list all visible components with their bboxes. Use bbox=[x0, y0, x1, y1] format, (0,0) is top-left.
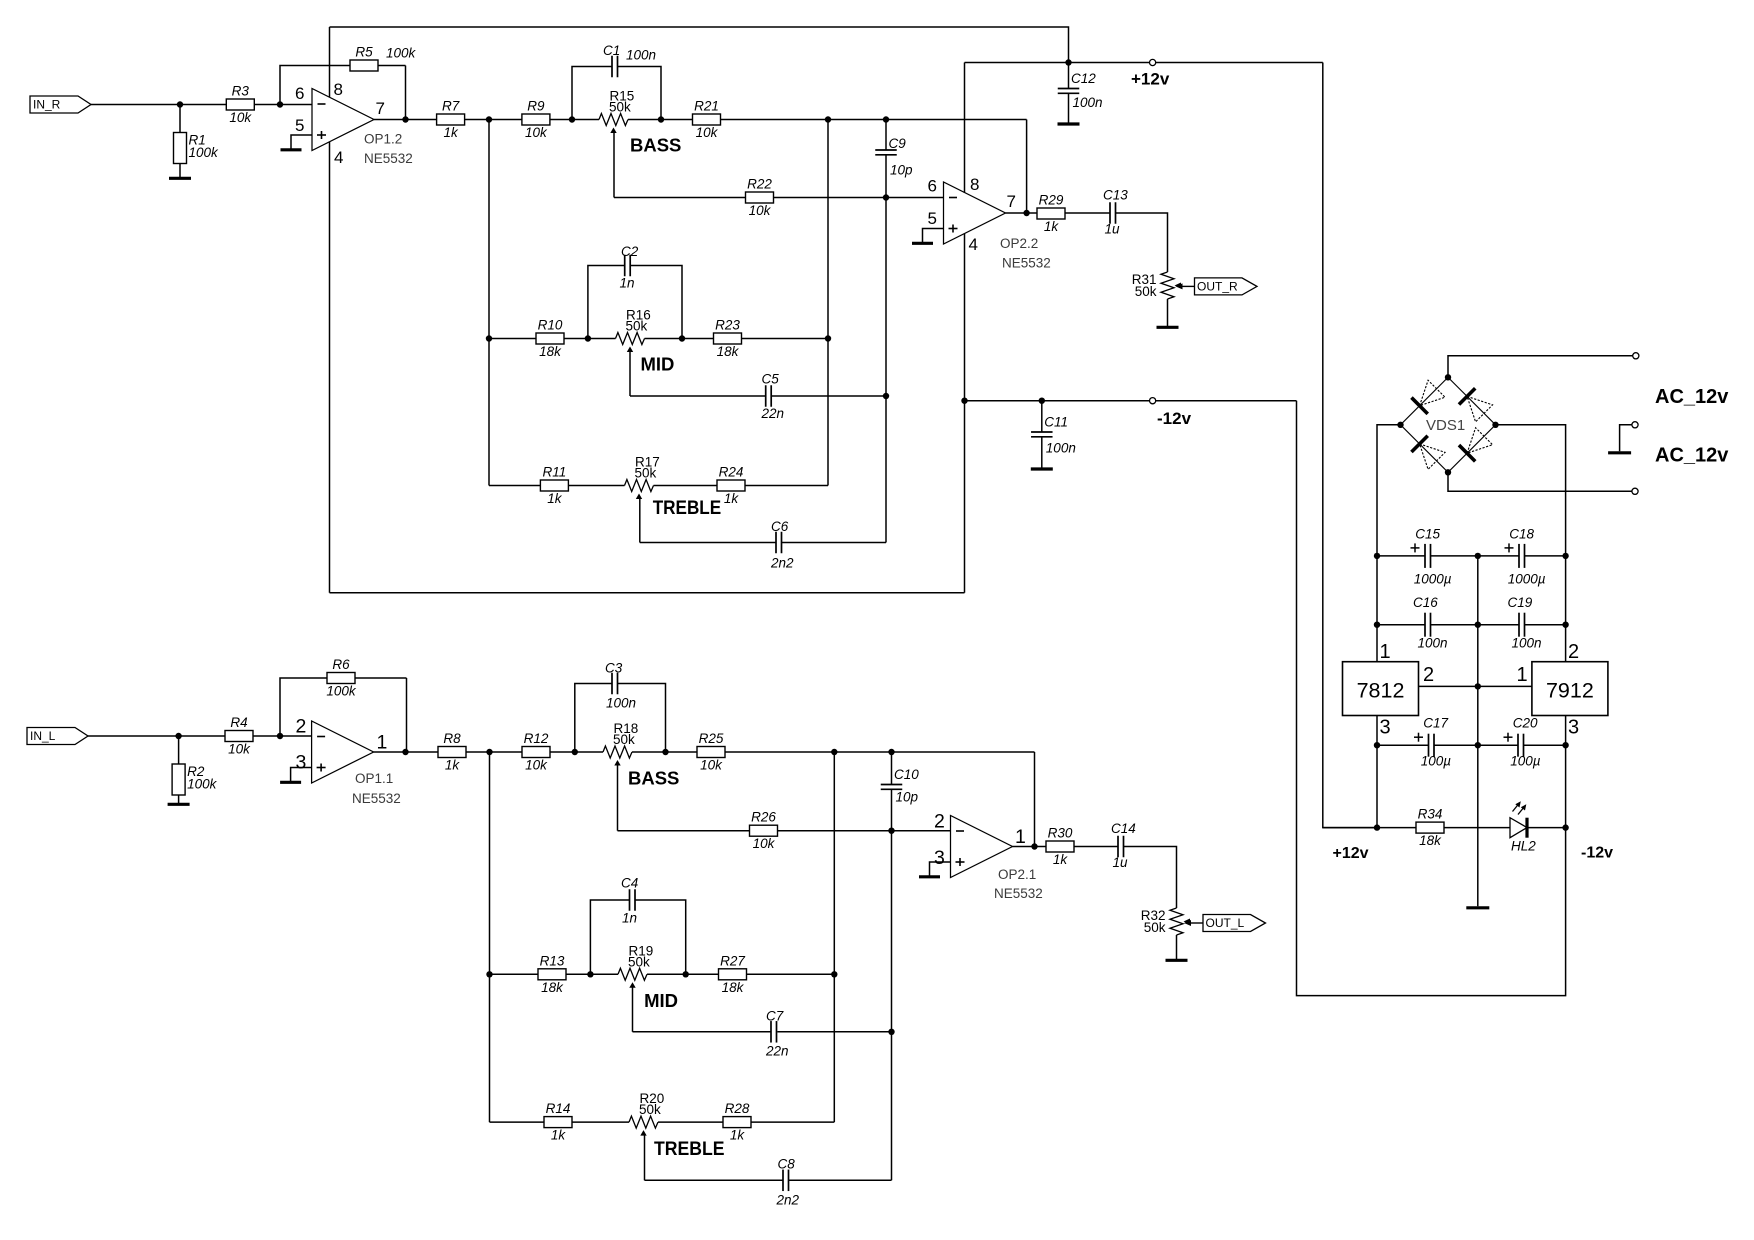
svg-text:C17: C17 bbox=[1423, 716, 1448, 731]
junction input bus top bbox=[486, 116, 492, 122]
wire middle column bbox=[1477, 556, 1479, 906]
svg-text:22n: 22n bbox=[765, 1044, 789, 1059]
capacitor C14 1u bbox=[1111, 821, 1136, 870]
svg-text:NE5532: NE5532 bbox=[352, 791, 401, 806]
wire R1 bottom lead bbox=[179, 164, 181, 178]
junction bass out / cold bus bbox=[825, 116, 831, 122]
capacitor C13 1u bbox=[1103, 188, 1128, 237]
junction C12 +12v bbox=[1065, 59, 1071, 65]
ground PSU middle bbox=[1466, 906, 1489, 909]
wire C8 row left bbox=[645, 1179, 784, 1181]
capacitor C10 10p bbox=[881, 767, 920, 805]
wire C9 upper lead bbox=[885, 120, 887, 151]
svg-text:2: 2 bbox=[1568, 641, 1579, 663]
node B1 bass right bbox=[658, 116, 664, 122]
capacitor C12 100n bbox=[1058, 71, 1103, 110]
resistor R7 1k bbox=[437, 99, 465, 141]
wire bass2 wiper down bbox=[617, 765, 619, 831]
junction bus mid row 2 bbox=[486, 971, 492, 977]
junction -12v output bbox=[1562, 824, 1568, 830]
svg-text:R25: R25 bbox=[699, 731, 724, 746]
wire R2 bottom lead bbox=[178, 795, 180, 803]
resistor R30 1k bbox=[1046, 826, 1074, 868]
wire C3 right bracket bbox=[618, 684, 666, 753]
svg-text:1000µ: 1000µ bbox=[1414, 571, 1452, 586]
svg-text:NE5532: NE5532 bbox=[1002, 256, 1051, 271]
svg-text:10k: 10k bbox=[525, 758, 548, 773]
wire C2 left bracket bbox=[588, 266, 625, 339]
junction C10 top bbox=[888, 749, 894, 755]
node B2 bass right bbox=[662, 749, 668, 755]
wire C10 upper lead bbox=[891, 752, 893, 785]
svg-text:18k: 18k bbox=[539, 344, 562, 359]
svg-text:2: 2 bbox=[1423, 664, 1434, 686]
svg-text:R27: R27 bbox=[720, 953, 745, 968]
ground at OP2.2 plus input bbox=[912, 229, 944, 244]
svg-text:2: 2 bbox=[296, 716, 307, 738]
wire -12v bottom rail bbox=[330, 592, 965, 594]
wire input bus vertical bbox=[488, 120, 490, 486]
ground AC middle bbox=[1608, 451, 1631, 454]
resistor R27 18k bbox=[719, 953, 747, 995]
wire R22 row to OP2.2 minus bbox=[614, 197, 944, 199]
svg-text:R29: R29 bbox=[1039, 193, 1064, 208]
svg-text:R13: R13 bbox=[540, 953, 565, 968]
op-amp OP1.1 NE5532 bbox=[296, 716, 401, 807]
junction OP2.2 output feedback bbox=[1023, 210, 1029, 216]
svg-text:R10: R10 bbox=[538, 318, 563, 333]
wire mid rail between regulators bbox=[1419, 685, 1532, 687]
wire R32 to ground bbox=[1176, 935, 1178, 959]
svg-text:5: 5 bbox=[295, 116, 304, 135]
potentiometer R15 50k BASS bbox=[599, 89, 634, 134]
ground under C11 bbox=[1031, 467, 1053, 470]
svg-text:10k: 10k bbox=[229, 110, 252, 125]
wire bridge left to +column bbox=[1377, 425, 1401, 662]
wire C1 right bracket bbox=[618, 67, 661, 120]
junction input/R2 bbox=[175, 733, 181, 739]
resistor R8 1k bbox=[438, 731, 466, 773]
svg-text:MID: MID bbox=[644, 990, 678, 1011]
svg-text:1: 1 bbox=[1380, 641, 1391, 663]
resistor R29 1k bbox=[1037, 193, 1065, 235]
svg-text:10k: 10k bbox=[696, 125, 719, 140]
connector IN_R bbox=[30, 96, 91, 113]
svg-text:C13: C13 bbox=[1103, 188, 1128, 203]
wire OP1.2 output row bbox=[374, 119, 599, 121]
svg-text:HL2: HL2 bbox=[1511, 839, 1536, 854]
svg-text:5: 5 bbox=[928, 209, 937, 228]
svg-text:10k: 10k bbox=[700, 758, 723, 773]
wire +12v top rail bbox=[330, 27, 1069, 63]
svg-text:TREBLE: TREBLE bbox=[653, 497, 722, 519]
svg-text:R24: R24 bbox=[719, 465, 744, 480]
wire cold bus vertical 2 bbox=[833, 752, 835, 1122]
regulator U2 7912 bbox=[1532, 662, 1608, 716]
capacitor C20 100u bbox=[1504, 716, 1541, 769]
svg-text:18k: 18k bbox=[717, 344, 740, 359]
wire bridge bottom to AC bbox=[1448, 472, 1632, 491]
svg-text:100k: 100k bbox=[189, 145, 220, 160]
svg-text:+12v: +12v bbox=[1333, 845, 1369, 862]
svg-text:1k: 1k bbox=[724, 491, 740, 506]
node mid left bbox=[585, 335, 591, 341]
svg-text:7912: 7912 bbox=[1546, 679, 1594, 703]
junction bridge top bbox=[1445, 374, 1451, 380]
capacitor C15 1000u bbox=[1411, 526, 1452, 586]
svg-text:C10: C10 bbox=[894, 767, 919, 782]
junction C5 row bbox=[883, 393, 889, 399]
junction C11 -12v bbox=[1039, 398, 1045, 404]
wire mid2 row right bbox=[647, 973, 834, 975]
svg-text:C18: C18 bbox=[1509, 526, 1534, 541]
terminal +12v bbox=[1150, 59, 1156, 65]
wire 7812 output down bbox=[1376, 716, 1378, 828]
node A1 bass left bbox=[569, 116, 575, 122]
svg-text:18k: 18k bbox=[1419, 833, 1442, 848]
svg-text:R8: R8 bbox=[443, 731, 461, 746]
svg-text:100k: 100k bbox=[187, 777, 218, 792]
junction mid2 out / cold bus bbox=[831, 971, 837, 977]
terminal AC bottom bbox=[1632, 488, 1638, 494]
junction C17 row mid bbox=[1475, 742, 1481, 748]
resistor R14 1k bbox=[544, 1101, 572, 1143]
wire input bus vertical 2 bbox=[489, 752, 491, 1122]
svg-text:C8: C8 bbox=[778, 1157, 796, 1172]
junction input bus top 2 bbox=[486, 749, 492, 755]
wire treble2 row bbox=[490, 1121, 630, 1123]
svg-text:1: 1 bbox=[1015, 826, 1026, 848]
op-amp OP2.1 NE5532 bbox=[934, 811, 1043, 902]
potentiometer R32 50k bbox=[1141, 908, 1190, 935]
svg-text:R21: R21 bbox=[694, 99, 719, 114]
wire R26 row to OP2.1 minus bbox=[618, 830, 951, 832]
wire C17 row b bbox=[1434, 744, 1518, 746]
svg-text:MID: MID bbox=[641, 354, 675, 375]
svg-text:10k: 10k bbox=[753, 836, 776, 851]
svg-text:4: 4 bbox=[334, 148, 343, 167]
capacitor C16 100n bbox=[1413, 595, 1448, 651]
wire C6 row left bbox=[640, 542, 776, 544]
resistor R1 100k bbox=[174, 133, 220, 164]
svg-text:NE5532: NE5532 bbox=[364, 151, 413, 166]
svg-text:OUT_R: OUT_R bbox=[1197, 279, 1238, 293]
connector OUT_R bbox=[1176, 278, 1258, 295]
svg-text:100n: 100n bbox=[1073, 95, 1103, 110]
terminal AC top bbox=[1633, 353, 1639, 359]
wire C17 row a bbox=[1377, 744, 1429, 746]
wire treble row right bbox=[654, 485, 829, 487]
ground under C12 bbox=[1058, 122, 1080, 125]
junction input/R1 bbox=[177, 101, 183, 107]
svg-text:2: 2 bbox=[934, 811, 945, 833]
svg-text:50k: 50k bbox=[628, 954, 650, 969]
svg-text:100n: 100n bbox=[626, 48, 656, 63]
svg-text:100µ: 100µ bbox=[1421, 754, 1452, 769]
wire OP2.1 output bbox=[1013, 846, 1119, 848]
svg-text:VDS1: VDS1 bbox=[1426, 417, 1465, 434]
terminal -12v bbox=[1150, 398, 1156, 404]
resistor R5 100k bbox=[350, 45, 417, 72]
capacitor C7 22n bbox=[765, 1009, 789, 1059]
wire C4 right bracket bbox=[636, 900, 686, 974]
junction -12v rail bbox=[961, 398, 967, 404]
svg-text:1k: 1k bbox=[730, 1128, 746, 1143]
svg-text:50k: 50k bbox=[1144, 920, 1166, 935]
svg-text:1k: 1k bbox=[547, 491, 563, 506]
wire C14 to R32 bbox=[1124, 847, 1177, 909]
svg-text:1k: 1k bbox=[1044, 219, 1060, 234]
ground at OP2.1 plus input bbox=[919, 862, 951, 877]
capacitor C1 100n bbox=[603, 43, 656, 77]
wire OP2.2 supply bottom pin 4 bbox=[964, 233, 966, 400]
capacitor C18 1000u bbox=[1505, 526, 1546, 586]
wire LED to -12v bbox=[1527, 827, 1566, 829]
svg-text:C5: C5 bbox=[762, 372, 780, 387]
wire C11 top lead bbox=[1041, 401, 1043, 432]
svg-text:100k: 100k bbox=[326, 684, 357, 699]
wire R5 output side bbox=[405, 66, 407, 120]
junction +12v output bbox=[1374, 824, 1380, 830]
wire C1 left bracket bbox=[572, 67, 612, 120]
wire C11 bottom lead bbox=[1041, 437, 1043, 468]
svg-text:R11: R11 bbox=[543, 465, 567, 480]
node mid2 left bbox=[587, 971, 593, 977]
resistor R12 10k bbox=[522, 731, 550, 773]
wire R6 output side bbox=[406, 678, 408, 752]
wire bass2 row to feedback corner bbox=[632, 751, 1035, 753]
LED HL2 bbox=[1510, 801, 1536, 853]
svg-text:C4: C4 bbox=[621, 876, 638, 891]
svg-text:C6: C6 bbox=[771, 519, 789, 534]
diode VDS1 bottom-right bbox=[1448, 425, 1496, 473]
wire C16 row c bbox=[1525, 624, 1566, 626]
svg-text:R23: R23 bbox=[715, 318, 740, 333]
potentiometer R17 50k TREBLE bbox=[625, 455, 660, 500]
potentiometer R19 50k MID bbox=[618, 943, 653, 988]
wire C6 row right bbox=[782, 542, 886, 544]
svg-text:R14: R14 bbox=[546, 1101, 571, 1116]
wire R34 row left bbox=[1323, 827, 1510, 829]
svg-text:50k: 50k bbox=[635, 466, 657, 481]
connector OUT_L bbox=[1184, 915, 1266, 932]
junction OP1.1 output bbox=[402, 749, 408, 755]
resistor R6 100k bbox=[326, 657, 357, 699]
wire bridge right to -column bbox=[1496, 425, 1566, 662]
ground under R32 bbox=[1166, 959, 1188, 962]
svg-text:AC_12v: AC_12v bbox=[1655, 386, 1729, 408]
node IN_R input wire bbox=[91, 104, 312, 106]
wire treble2 row right bbox=[658, 1121, 834, 1123]
wire R2 top lead bbox=[178, 736, 180, 765]
wire mid wiper down bbox=[629, 352, 631, 397]
resistor R34 18k bbox=[1416, 807, 1444, 849]
resistor R10 18k bbox=[536, 318, 564, 360]
ground under R31 bbox=[1157, 326, 1179, 329]
svg-text:7812: 7812 bbox=[1357, 679, 1405, 703]
svg-text:18k: 18k bbox=[722, 980, 745, 995]
svg-text:C7: C7 bbox=[766, 1009, 784, 1024]
resistor R25 10k bbox=[697, 731, 725, 773]
junction C15 row mid bbox=[1475, 553, 1481, 559]
svg-text:50k: 50k bbox=[1135, 284, 1157, 299]
wire bridge top to AC bbox=[1448, 356, 1633, 378]
node IN_L input wire bbox=[88, 735, 312, 737]
svg-text:3: 3 bbox=[934, 847, 945, 869]
svg-text:C14: C14 bbox=[1111, 821, 1136, 836]
svg-text:1k: 1k bbox=[443, 125, 459, 140]
resistor R24 1k bbox=[717, 465, 745, 507]
junction C15 row right bbox=[1562, 553, 1568, 559]
svg-text:-12v: -12v bbox=[1581, 845, 1613, 862]
wire C8 row right bbox=[789, 1179, 892, 1181]
wire treble wiper down bbox=[639, 499, 641, 543]
wire feedback to R6 bbox=[280, 678, 407, 736]
wire AC mid ground bbox=[1620, 425, 1632, 452]
svg-text:OP2.2: OP2.2 bbox=[1000, 236, 1038, 251]
svg-text:100n: 100n bbox=[1512, 636, 1542, 651]
junction C7 row bbox=[888, 1029, 894, 1035]
junction C16 row mid bbox=[1475, 622, 1481, 628]
wire mid2 row left bbox=[490, 973, 619, 975]
svg-text:3: 3 bbox=[1380, 717, 1391, 739]
svg-text:100k: 100k bbox=[386, 46, 417, 61]
svg-text:10k: 10k bbox=[228, 742, 251, 757]
wire C7 row right bbox=[777, 1031, 891, 1033]
resistor R22 10k bbox=[746, 177, 774, 219]
junction OP1.2 output bbox=[402, 116, 408, 122]
wire C12 bottom lead bbox=[1068, 93, 1070, 122]
wire C5 row right bbox=[771, 395, 886, 397]
wire OP1.2 supply bottom pin 4 bbox=[329, 142, 331, 593]
svg-text:1: 1 bbox=[1517, 664, 1528, 686]
wire C7 row left bbox=[633, 1031, 772, 1033]
svg-text:C19: C19 bbox=[1508, 595, 1533, 610]
svg-text:C1: C1 bbox=[603, 43, 620, 58]
svg-text:10p: 10p bbox=[896, 790, 919, 805]
resistor R4 10k bbox=[225, 715, 253, 757]
svg-text:8: 8 bbox=[970, 175, 979, 194]
svg-text:C9: C9 bbox=[889, 136, 907, 151]
wire R31 to ground bbox=[1167, 299, 1169, 326]
svg-text:10k: 10k bbox=[749, 203, 772, 218]
junction bass2 out / cold bus bbox=[831, 749, 837, 755]
node B minus input OP1.1 bbox=[277, 733, 283, 739]
capacitor C8 2n2 bbox=[776, 1157, 800, 1208]
junction mid rail bbox=[1475, 683, 1481, 689]
svg-text:50k: 50k bbox=[613, 732, 635, 747]
diode VDS1 bottom-left bbox=[1401, 425, 1449, 473]
wire 7912 output down bbox=[1565, 716, 1567, 828]
wire mid row left bbox=[489, 338, 616, 340]
capacitor C4 1n bbox=[621, 876, 638, 926]
wire minus node vertical 2 bbox=[891, 789, 893, 1180]
svg-text:1u: 1u bbox=[1105, 222, 1121, 237]
resistor R28 1k bbox=[723, 1101, 751, 1143]
junction minus node / R22 row bbox=[883, 194, 889, 200]
wire C5 row left bbox=[630, 395, 766, 397]
svg-text:18k: 18k bbox=[541, 980, 564, 995]
junction bridge left bbox=[1397, 422, 1403, 428]
regulator U1 7812 bbox=[1343, 662, 1419, 716]
wire C15 row a bbox=[1377, 555, 1425, 557]
svg-text:6: 6 bbox=[928, 177, 937, 196]
wire R1 top lead bbox=[179, 105, 181, 134]
capacitor C2 1n bbox=[620, 244, 639, 291]
svg-text:R9: R9 bbox=[527, 99, 545, 114]
wire C17 row c bbox=[1524, 744, 1566, 746]
resistor R26 10k bbox=[750, 810, 778, 852]
junction C9 top bbox=[883, 116, 889, 122]
capacitor C6 2n2 bbox=[770, 519, 794, 571]
wire C3 left bracket bbox=[575, 684, 612, 753]
wire C16 row b bbox=[1431, 624, 1520, 626]
junction bus mid row bbox=[486, 335, 492, 341]
connector IN_L bbox=[27, 728, 88, 745]
node A2 bass left bbox=[572, 749, 578, 755]
node mid right bbox=[679, 335, 685, 341]
svg-text:6: 6 bbox=[295, 84, 304, 103]
wire pin8 +12v rail bbox=[965, 62, 1323, 64]
svg-text:R22: R22 bbox=[747, 177, 772, 192]
wire feedback corner down bbox=[1026, 120, 1028, 214]
svg-text:100n: 100n bbox=[606, 696, 636, 711]
wire feedback corner down 2 bbox=[1034, 752, 1036, 847]
svg-text:50k: 50k bbox=[639, 1102, 661, 1117]
junction C16 row left bbox=[1374, 622, 1380, 628]
terminal AC middle bbox=[1632, 422, 1638, 428]
op-amp OP2.2 NE5532 bbox=[928, 175, 1051, 271]
svg-text:R5: R5 bbox=[355, 45, 373, 60]
svg-text:C12: C12 bbox=[1071, 71, 1096, 86]
wire OP1.1 output row bbox=[374, 751, 603, 753]
junction bridge bottom bbox=[1445, 469, 1451, 475]
wire minus node vertical bbox=[885, 155, 887, 543]
wire OP2.2 output bbox=[1006, 212, 1111, 214]
svg-text:1: 1 bbox=[377, 732, 388, 754]
wire C15 row c bbox=[1525, 555, 1566, 557]
wire C2 right bracket bbox=[630, 266, 682, 339]
diode VDS1 top-left bbox=[1401, 377, 1449, 425]
svg-text:1k: 1k bbox=[445, 758, 461, 773]
wire treble row bbox=[489, 485, 625, 487]
wire -12v to PSU bbox=[1297, 401, 1566, 996]
wire bass wiper down bbox=[613, 133, 615, 198]
svg-text:1n: 1n bbox=[622, 911, 637, 926]
wire feedback to R5 bbox=[280, 66, 406, 105]
potentiometer R16 50k MID bbox=[616, 308, 651, 353]
wire C13 to R31 bbox=[1116, 213, 1168, 272]
junction C17 row left bbox=[1374, 742, 1380, 748]
svg-text:TREBLE: TREBLE bbox=[654, 1138, 725, 1160]
capacitor C11 100n bbox=[1031, 415, 1076, 456]
svg-text:-12v: -12v bbox=[1157, 409, 1192, 428]
svg-text:OP2.1: OP2.1 bbox=[998, 867, 1036, 882]
svg-text:OP1.1: OP1.1 bbox=[355, 771, 393, 786]
resistor R3 10k bbox=[226, 84, 254, 126]
svg-text:C20: C20 bbox=[1513, 716, 1538, 731]
svg-text:8: 8 bbox=[334, 80, 343, 99]
svg-text:BASS: BASS bbox=[630, 135, 681, 156]
junction bridge right bbox=[1492, 422, 1498, 428]
svg-text:+12v: +12v bbox=[1131, 70, 1170, 89]
capacitor C3 100n bbox=[605, 661, 636, 711]
ground under R1 bbox=[169, 177, 191, 180]
wire C15 row b bbox=[1431, 555, 1520, 557]
capacitor C17 100u bbox=[1414, 716, 1451, 769]
svg-text:1k: 1k bbox=[1053, 852, 1069, 867]
resistor R23 18k bbox=[714, 318, 742, 360]
